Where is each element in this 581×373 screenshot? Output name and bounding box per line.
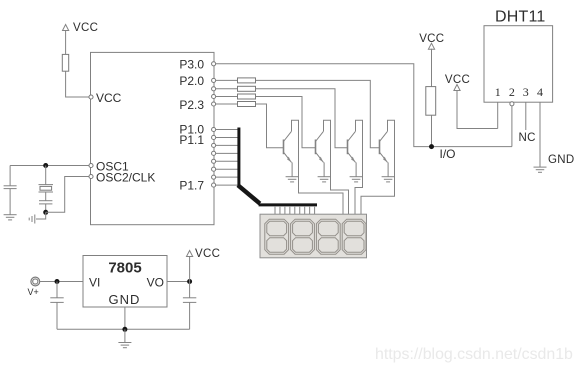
wire P2.0 to resistor <box>216 79 238 81</box>
DHT11 U2 box <box>484 26 553 103</box>
wire VCC arrow to resistor <box>65 30 67 54</box>
svg-text:GND: GND <box>109 292 141 307</box>
svg-text:4: 4 <box>537 85 543 99</box>
wire Q4 collector hook <box>361 120 395 214</box>
svg-text:DHT11: DHT11 <box>495 9 546 26</box>
wire resistor R5 to Q1 base <box>256 104 284 148</box>
capacitor C1 (left) <box>4 166 17 215</box>
transistor Q4 <box>380 131 388 162</box>
wire V+ to VI <box>40 281 83 283</box>
svg-text:VCC: VCC <box>96 91 122 105</box>
MCU pin P1.7 <box>179 179 215 193</box>
svg-text:2: 2 <box>509 85 515 99</box>
crystal Y1 <box>39 166 54 201</box>
DHT11 pin 3 (NC) <box>519 85 536 144</box>
MCU pin P1.6 <box>212 175 216 179</box>
MCU pin P1.3 <box>212 151 216 155</box>
wire 7805 GND pin to rail <box>124 307 126 329</box>
MCU pin P2.0 <box>179 74 215 88</box>
node crystal bottom junction <box>43 210 48 215</box>
wire OSC2/CLK net <box>46 177 89 213</box>
resistor R4 (base of Q2) <box>238 94 256 99</box>
wire P2.3 to resistor <box>216 103 238 105</box>
wire resistor R3 to Q3 base <box>256 89 348 148</box>
MCU pin OSC1 <box>89 159 129 173</box>
regulator U3 7805 box <box>83 256 167 308</box>
wire bus to display segment pins <box>275 207 315 214</box>
terminal V+ input <box>28 277 40 297</box>
ground (Q2 emitter) <box>318 177 331 182</box>
wire junction to ground symbol <box>124 329 126 342</box>
MCU U1 box <box>91 52 215 224</box>
svg-text:VCC: VCC <box>445 74 470 86</box>
svg-text:VCC: VCC <box>73 22 98 34</box>
MCU pin P1.1 <box>179 133 215 147</box>
svg-text:P1.7: P1.7 <box>179 179 204 193</box>
MCU pin OSC2/CLK <box>89 170 155 184</box>
wire Q3 emitter to ground <box>355 162 357 176</box>
wire P2.1 to resistor <box>216 88 238 90</box>
wire Q4 emitter to ground <box>387 162 389 176</box>
capacitor C2 (below crystal) <box>39 201 52 213</box>
ground (Q4 emitter) <box>382 177 395 182</box>
power symbol VCC (top-left) <box>63 22 99 34</box>
svg-text:OSC2/CLK: OSC2/CLK <box>96 170 155 184</box>
DHT11 pin 1 <box>495 85 501 129</box>
ground (below C1) <box>4 215 17 220</box>
wire to left ground tap <box>36 212 46 219</box>
svg-text:VO: VO <box>147 276 164 290</box>
svg-text:3: 3 <box>523 85 529 99</box>
display digit 3 <box>316 219 340 254</box>
DHT11 pin 4 (GND) <box>537 85 543 167</box>
svg-text:P2.3: P2.3 <box>179 98 204 112</box>
MCU pin P1.4 <box>212 159 216 163</box>
ground (Q3 emitter) <box>350 177 363 182</box>
display digit 4 <box>342 219 366 254</box>
wire pull-up resistor to I/O node <box>431 115 433 146</box>
ground (rotated, left of crystal) <box>29 215 35 224</box>
power symbol VCC (I/O pull-up) <box>419 33 444 49</box>
node ground rail junction <box>122 327 127 332</box>
svg-text:V+: V+ <box>28 287 39 297</box>
MCU pin P2.2 <box>212 94 216 98</box>
display DS1 (4-digit 7-segment) <box>260 214 367 258</box>
wire P2.2 to resistor <box>216 96 238 98</box>
ground (DHT11 pin 4) <box>534 167 547 172</box>
svg-text:VI: VI <box>89 276 100 290</box>
wire Q1 emitter to ground <box>291 162 293 176</box>
svg-text:NC: NC <box>519 132 536 144</box>
wire VCC to DHT11 pin 1 <box>457 90 498 129</box>
MCU pin P2.3 <box>179 98 215 112</box>
capacitor C3 (input) <box>50 282 63 330</box>
wire Q2 collector hook <box>324 120 349 214</box>
MCU pin P1.0 <box>179 123 215 137</box>
transistor Q2 <box>316 131 324 162</box>
wire resistor to MCU VCC pin <box>66 71 89 97</box>
resistor R2 (base of Q4) <box>238 78 256 83</box>
svg-text:P3.0: P3.0 <box>179 57 204 71</box>
transistor Q3 <box>348 131 356 162</box>
bus (thick data bus to display) <box>237 128 240 187</box>
wire P3.0 to I/O node <box>216 64 512 147</box>
node output junction <box>187 279 192 284</box>
display digit 1 <box>265 219 289 254</box>
capacitor C4 (output) <box>183 282 196 330</box>
wire VCC to pull-up resistor <box>431 49 433 87</box>
resistor (VCC pull, top-left) <box>62 54 68 71</box>
ground (7805) <box>118 343 131 348</box>
MCU pin VCC <box>89 91 122 105</box>
resistor R5 (base of Q1) <box>238 102 256 107</box>
wire Q3 collector hook <box>355 120 363 214</box>
svg-text:GND: GND <box>548 154 574 166</box>
resistor R1 (I/O pull-up) <box>426 87 436 116</box>
MCU pin P1.5 <box>212 167 216 171</box>
wire Q2 emitter to ground <box>323 162 325 176</box>
MCU pin P2.1 <box>212 87 216 91</box>
wire resistor R4 to Q2 base <box>256 97 316 148</box>
svg-text:P1.1: P1.1 <box>179 133 204 147</box>
MCU pin P3.0 <box>179 57 215 71</box>
svg-text:P2.0: P2.0 <box>179 74 204 88</box>
power symbol VCC (7805 output) <box>187 248 221 260</box>
wire output node to VCC arrow <box>189 256 191 282</box>
MCU pin P1.2 <box>212 143 216 147</box>
svg-text:7805: 7805 <box>108 260 141 277</box>
power symbol VCC (DHT11 pin 1) <box>445 74 470 91</box>
transistor Q1 <box>284 131 292 162</box>
node input junction <box>55 279 60 284</box>
DHT11 pin 2 <box>509 85 515 147</box>
display digit 2 <box>291 219 315 254</box>
wire Q1 collector hook <box>292 120 344 214</box>
svg-text:I/O: I/O <box>440 147 456 161</box>
node OSC1 junction <box>43 163 48 168</box>
wire OSC1 net <box>10 165 89 167</box>
wire ground rail <box>57 328 190 330</box>
resistor R3 (base of Q3) <box>238 86 256 91</box>
wire P1.0-P1.7 to bus <box>216 130 238 186</box>
svg-text:1: 1 <box>495 85 501 99</box>
node I/O junction <box>429 144 434 149</box>
svg-text:https://blog.csdn.net/csdn1b: https://blog.csdn.net/csdn1b <box>375 346 573 363</box>
wire resistor R2 to Q4 base <box>256 80 380 147</box>
ground (Q1 emitter) <box>286 177 299 182</box>
wire VO to VCC node <box>167 281 190 283</box>
svg-text:VCC: VCC <box>195 248 220 260</box>
